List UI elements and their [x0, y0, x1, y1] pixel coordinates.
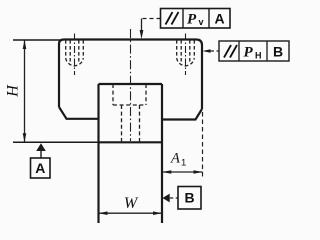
main centerline [130, 29, 132, 141]
W arrow left [99, 211, 108, 215]
svg-text:H: H [5, 84, 22, 98]
A1 dashed extension line [202, 112, 204, 179]
svg-text:A: A [214, 11, 224, 27]
A1 dimension line [162, 171, 203, 173]
FCF PH leader dash [211, 50, 220, 52]
left hole centerline [74, 34, 76, 76]
left hole (hidden) [66, 40, 84, 66]
FCF PV divider 2 [208, 9, 210, 29]
svg-text:B: B [273, 44, 283, 60]
svg-text:1: 1 [181, 158, 186, 169]
FCF PV divider 1 [182, 9, 184, 29]
svg-text:P: P [187, 12, 197, 28]
H arrow down [23, 133, 27, 142]
rail block outline [99, 84, 163, 223]
FCF PV leader arrow [140, 30, 144, 39]
H bottom extension line [13, 141, 99, 143]
A1 arrow left [162, 170, 171, 174]
FCF PH divider 1 [238, 41, 240, 61]
datum A triangle [36, 143, 46, 151]
datum B triangle [163, 194, 170, 203]
A1 arrow right [194, 170, 203, 174]
right hole (hidden) [177, 40, 195, 66]
W dimension line [99, 212, 163, 214]
svg-text:H: H [255, 51, 262, 61]
FCF PV leader vertical [141, 19, 143, 32]
feature control frame PH box [219, 41, 289, 61]
H arrow up [23, 40, 27, 49]
parallelism symbol PV [166, 12, 179, 25]
H dimension line [24, 40, 26, 142]
datum B connector [170, 197, 178, 199]
svg-text:B: B [184, 190, 194, 206]
right hole centerline [185, 34, 187, 76]
svg-text:P: P [244, 45, 254, 61]
svg-text:A: A [35, 160, 45, 176]
datum A stem [40, 151, 42, 158]
datum B box [178, 187, 201, 210]
H top extension line [13, 39, 60, 41]
FCF PH leader arrow [202, 49, 210, 53]
carriage body outline [59, 40, 202, 120]
FCF PH divider 2 [266, 41, 268, 61]
hidden T-slot in rail (dashed) [113, 84, 146, 142]
svg-text:v: v [199, 17, 204, 27]
FCF PV leader dashes [142, 18, 161, 20]
W arrow right [153, 211, 162, 215]
feature control frame PV box [161, 9, 231, 29]
parallelism symbol PH [224, 45, 237, 58]
svg-text:A: A [170, 151, 180, 167]
datum A box [31, 158, 51, 178]
svg-text:W: W [124, 195, 139, 212]
